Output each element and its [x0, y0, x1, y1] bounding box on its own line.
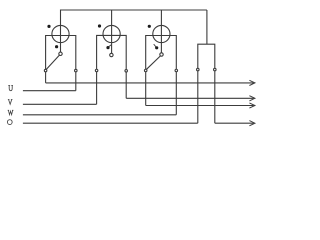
switch pivot element 2: [110, 53, 113, 56]
wire element 2 right terminal down: [125, 72, 127, 98]
wire O out to arrow: [215, 122, 254, 124]
element 1 box: [46, 36, 76, 70]
wire element 1 left terminal down: [45, 72, 47, 83]
polarity dot element 1 upper: [47, 25, 50, 28]
meter element M1 circle: [52, 25, 69, 42]
meter element M2 circle: [103, 25, 120, 42]
element 3 box: [146, 36, 177, 70]
terminal circle element 3 left: [144, 69, 147, 72]
wire line U: [23, 90, 76, 92]
wire top bus: [61, 9, 207, 11]
arrowhead row C: [249, 103, 255, 108]
arrowhead row A: [249, 80, 255, 85]
polarity dot element 2 upper: [98, 24, 101, 27]
arrowhead row B: [249, 96, 255, 101]
arrowhead O out: [249, 121, 255, 126]
wire element 3 right terminal down: [175, 72, 177, 115]
wire row A to arrow: [46, 82, 254, 84]
wire line W: [23, 114, 176, 116]
terminal circle element 2 left: [95, 69, 98, 72]
wire drop to voltage link box: [206, 10, 208, 44]
switch blade element 1: [46, 55, 59, 69]
label V: [8, 100, 12, 105]
wire element 1 right terminal down: [75, 72, 77, 91]
wire row C to arrow: [146, 105, 254, 107]
terminal circle element 2 right: [125, 70, 128, 73]
wire drop to element 2 coil: [111, 10, 113, 53]
polarity dot element 1 lower: [55, 45, 58, 48]
wire link box right terminal down: [214, 71, 216, 123]
wire drop to element 1 coil: [60, 10, 62, 52]
tick element 2 dot to wire: [109, 45, 112, 47]
wire element 2 left terminal down: [96, 72, 98, 104]
terminal circle element 1 left: [44, 69, 47, 72]
wire line O: [23, 122, 198, 124]
label U: [8, 86, 13, 91]
terminal circle element 1 right: [75, 69, 78, 72]
wire line V: [23, 103, 97, 105]
element 2 box: [97, 35, 127, 69]
tick element 3 dot to circle: [154, 44, 156, 47]
polarity dot element 3 lower: [155, 46, 158, 49]
polarity dot element 3 upper: [148, 25, 151, 28]
wire link box left terminal down: [197, 71, 199, 123]
terminal circle link box right: [214, 68, 217, 71]
wire drop to element 3 coil: [160, 10, 162, 53]
wire element 3 left terminal down: [145, 72, 147, 106]
terminal circle link box left: [197, 68, 200, 71]
voltage link box TB: [198, 44, 215, 68]
switch pivot element 1: [59, 52, 62, 55]
polarity dot element 2 lower: [106, 46, 109, 49]
switch blade element 3: [147, 56, 161, 69]
label O: [7, 120, 12, 125]
terminal circle element 3 right: [175, 69, 178, 72]
wire row B to arrow: [126, 97, 253, 99]
switch pivot element 3: [160, 53, 163, 56]
label W: [8, 110, 14, 114]
meter element M3 circle: [153, 25, 170, 42]
